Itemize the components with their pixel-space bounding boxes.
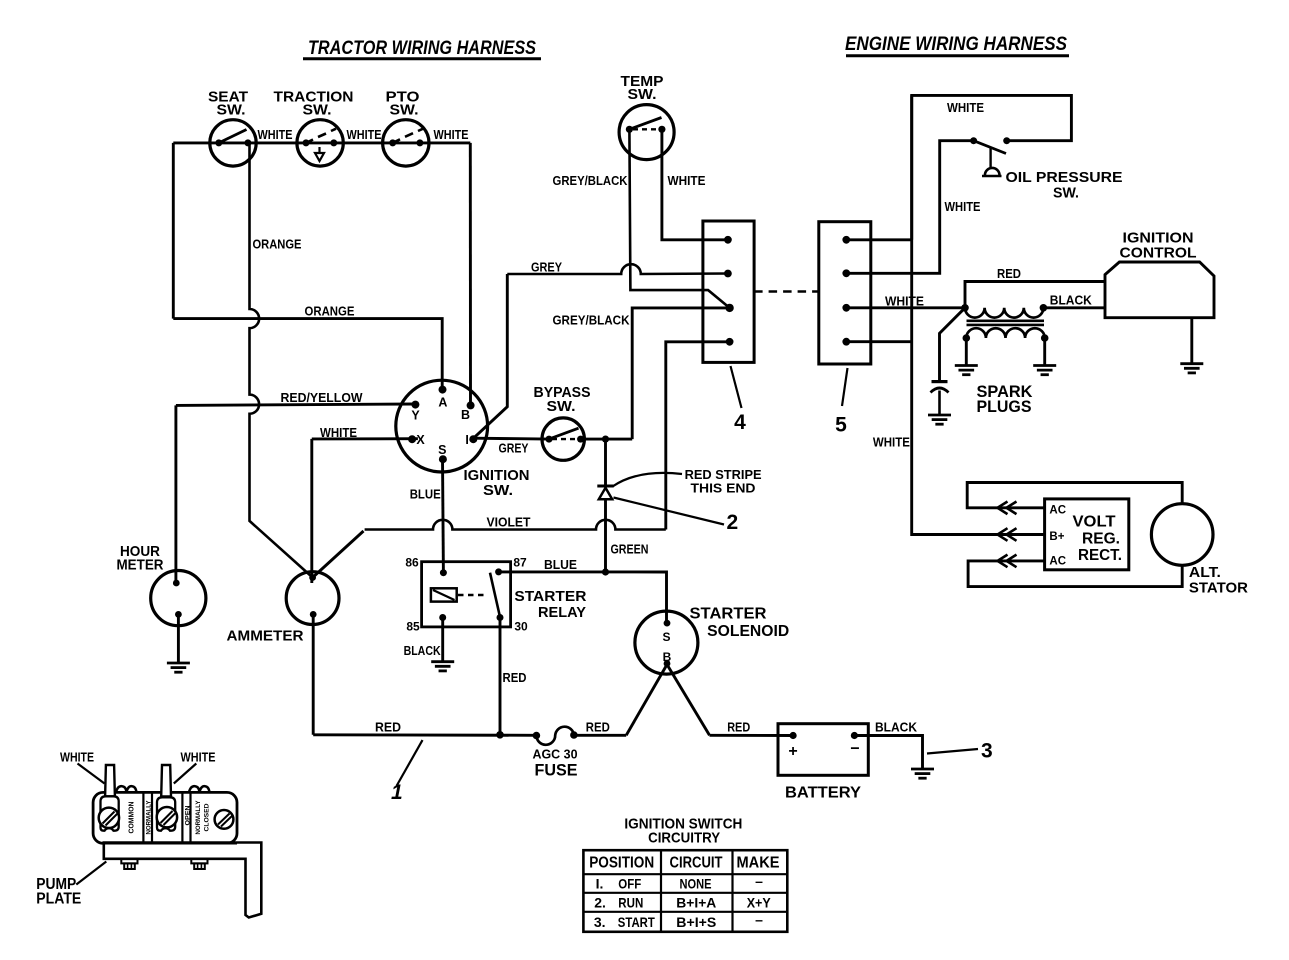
svg-text:ORANGE: ORANGE (253, 238, 302, 252)
solenoid STARTER SOLENOID (635, 606, 789, 675)
svg-text:AC: AC (1049, 556, 1066, 568)
label COMMON (127, 802, 136, 834)
svg-text:BLACK: BLACK (404, 644, 441, 658)
arrow AC top (998, 502, 1017, 515)
wire orange vertical from seat sw (with hops) (250, 143, 313, 578)
diode (red stripe this end) (597, 486, 613, 572)
arrow B+ (998, 528, 1017, 541)
svg-text:NONE: NONE (680, 876, 712, 892)
connector 4 pin2 (724, 270, 732, 278)
svg-text:30: 30 (514, 620, 528, 634)
svg-text:WHITE: WHITE (947, 101, 984, 115)
relay terminal 86 (405, 555, 447, 576)
connector 5 pin3 (842, 304, 850, 312)
svg-text:WHITE: WHITE (181, 750, 216, 764)
svg-text:87: 87 (513, 555, 527, 569)
module IGNITION CONTROL (1105, 230, 1214, 318)
svg-text:NORMALLY: NORMALLY (195, 800, 202, 834)
svg-text:POSITION: POSITION (589, 855, 654, 872)
pump plate redraw block bottom (104, 842, 237, 844)
ground ignition control (1180, 364, 1203, 373)
svg-text:RED: RED (586, 721, 610, 735)
wire GREY horizontal (hop over grey/black) (507, 264, 728, 274)
svg-text:BLACK: BLACK (875, 721, 917, 735)
coil secondary winding (963, 328, 1049, 342)
label GREY (bypass) (499, 442, 530, 456)
pump block top bumps left (116, 786, 137, 792)
relay actuator dashes (458, 594, 488, 596)
relay terminal 30 (497, 614, 528, 634)
label NORMALLY (open) (145, 800, 152, 834)
svg-text:VOLT: VOLT (1073, 514, 1117, 531)
title TRACTOR WIRING HARNESS (303, 37, 541, 59)
pump plate (104, 843, 261, 918)
svg-text:B: B (663, 650, 672, 664)
arrow AC bottom (998, 555, 1017, 568)
label VOLT REG. RECT. (1073, 514, 1123, 565)
svg-text:TRACTOR WIRING HARNESS: TRACTOR WIRING HARNESS (308, 37, 536, 59)
label BLACK (battery) (875, 721, 917, 735)
svg-text:STARTER: STARTER (514, 588, 586, 605)
wire AC top loop (967, 483, 1182, 508)
svg-text:SW.: SW. (628, 86, 657, 103)
svg-text:PLUGS: PLUGS (977, 398, 1032, 416)
svg-text:4: 4 (734, 411, 746, 434)
wire BLACK battery to ground (854, 736, 922, 770)
svg-text:PLATE: PLATE (36, 891, 81, 908)
label WHITE (coil) (885, 295, 924, 309)
label IGNITION SW. (464, 467, 530, 499)
ground spark plug right (1033, 366, 1056, 375)
svg-text:WHITE: WHITE (668, 174, 706, 188)
svg-text:CIRCUIT: CIRCUIT (670, 855, 723, 872)
svg-text:RED STRIPE: RED STRIPE (685, 468, 762, 482)
label B+ (1049, 531, 1064, 543)
svg-text:OPEN: OPEN (184, 805, 191, 825)
svg-text:86: 86 (405, 555, 419, 569)
label VIOLET (487, 516, 531, 530)
svg-text:GREEN: GREEN (611, 543, 649, 557)
relay blade (490, 573, 500, 616)
label WHITE (oil top) (947, 101, 984, 115)
svg-text:GREY: GREY (531, 261, 563, 275)
label WHITE (to volt reg) (873, 436, 910, 450)
svg-text:CLOSED: CLOSED (203, 803, 210, 831)
svg-text:SW.: SW. (303, 102, 332, 119)
svg-text:SW.: SW. (390, 102, 419, 119)
wire RED coil to ignition control (965, 282, 1105, 308)
label GREY (to connector) (531, 261, 563, 275)
label WHITE (pto-right) (434, 128, 469, 142)
svg-text:B+I+S: B+I+S (676, 914, 716, 930)
svg-text:AC: AC (1049, 505, 1066, 517)
wire hour meter drop (174, 405, 177, 583)
table header (589, 855, 779, 872)
wire oil pressure loop (912, 95, 1072, 239)
connector 5 pin1 (842, 236, 850, 244)
wire ignition control ground lead (1190, 318, 1193, 364)
label WHITE (traction-pto) (347, 128, 382, 142)
wire B drop from white rail (469, 143, 472, 405)
wire BLUE S to relay 86 (441, 458, 445, 573)
callout 3 (927, 740, 993, 763)
pump screw left (COMMON) (99, 808, 119, 828)
label OPEN (184, 805, 191, 825)
label BLUE (87) (544, 558, 577, 572)
svg-text:85: 85 (406, 620, 420, 634)
label AC bottom (1049, 556, 1066, 568)
svg-text:START: START (618, 914, 655, 930)
meter HOUR METER (117, 543, 206, 663)
svg-text:METER: METER (117, 557, 164, 574)
switch TEMP SW. (619, 73, 674, 160)
node diode tap (602, 436, 609, 443)
wire RED rail left (313, 733, 536, 736)
pump spade terminal right (161, 765, 171, 797)
pump block divider 4 (189, 792, 191, 843)
battery BATTERY (778, 724, 868, 802)
wire oil-left to connector5 pin2 (846, 141, 973, 274)
capacitor (931, 382, 949, 415)
label RED/YELLOW (281, 391, 363, 405)
wire temp-right WHITE to connector4 pin1 (662, 129, 728, 240)
wire VIOLET diagonal into ammeter (313, 531, 364, 578)
svg-text:RED: RED (375, 721, 401, 735)
pump terminal lug middle (157, 797, 175, 830)
pump terminal lug left (101, 796, 119, 830)
wire RED/YELLOW to ignition Y (176, 404, 416, 405)
svg-text:RECT.: RECT. (1078, 547, 1122, 564)
label PUMP PLATE (36, 862, 106, 908)
svg-text:BLACK: BLACK (1050, 294, 1092, 308)
pump terminal block body (93, 792, 237, 843)
terminal A (438, 386, 447, 410)
svg-text:A: A (438, 396, 447, 410)
svg-text:MAKE: MAKE (737, 855, 780, 872)
svg-text:RUN: RUN (618, 895, 643, 911)
wire secondary left to ground (965, 338, 968, 366)
pump screw middle (157, 807, 177, 827)
callout 5 (835, 368, 847, 437)
svg-text:SW.: SW. (483, 482, 513, 499)
wire connector5 pin4 branch (846, 340, 911, 343)
wire I to bypass (474, 437, 550, 441)
svg-text:VIOLET: VIOLET (487, 516, 531, 530)
switch SEAT SW. (208, 89, 256, 167)
ground spark plug left (955, 366, 978, 375)
table row 3 (594, 912, 763, 930)
svg-text:SW.: SW. (547, 398, 576, 415)
wire GREY/BLACK pin3 to bypass corner (632, 308, 729, 439)
node coil primary left (961, 304, 969, 312)
svg-text:RELAY: RELAY (538, 604, 586, 621)
meter AMMETER (227, 572, 340, 735)
svg-text:WHITE: WHITE (320, 426, 357, 440)
wire diode upper lead (604, 439, 607, 484)
svg-text:5: 5 (835, 414, 847, 437)
label GREY/BLACK (upper) (553, 174, 628, 188)
label WHITE (oil drop) (945, 200, 981, 214)
label RED (battery) (727, 721, 750, 735)
wire solenoid B right leg (667, 665, 710, 736)
relay coil (431, 588, 457, 601)
connector 4 body (703, 221, 754, 362)
svg-text:THIS END: THIS END (691, 482, 756, 496)
table row 1 (596, 873, 764, 892)
svg-text:ALT.: ALT. (1189, 564, 1221, 581)
label WHITE (seat-traction) (258, 128, 293, 142)
wire GREY riser (474, 274, 508, 438)
label WHITE (pump right) (174, 750, 216, 783)
label ORANGE (vertical) (253, 238, 302, 252)
wire relay 85 to ground (441, 618, 444, 662)
relay terminal 87 (495, 555, 527, 575)
svg-text:WHITE: WHITE (347, 128, 382, 142)
svg-text:WHITE: WHITE (885, 295, 924, 309)
wire capacitor lead (940, 308, 966, 380)
svg-text:CONTROL: CONTROL (1120, 245, 1197, 262)
wire AC bottom loop (968, 561, 1182, 587)
svg-text:–: – (755, 912, 763, 928)
svg-text:B+I+A: B+I+A (676, 895, 716, 911)
wire bypass to grey/black corner (581, 438, 633, 441)
svg-text:WHITE: WHITE (434, 128, 469, 142)
svg-text:WHITE: WHITE (873, 436, 910, 450)
label RED (fuse) (586, 721, 610, 735)
label GREEN (611, 543, 649, 557)
svg-text:S: S (662, 630, 670, 644)
ground battery (911, 769, 934, 778)
label STARTER RELAY (514, 588, 586, 621)
svg-text:WHITE: WHITE (258, 128, 293, 142)
relay STARTER RELAY body (422, 562, 511, 627)
switch IGNITION SW. body (396, 380, 488, 472)
wire VIOLET riser to connector4 pin4 (666, 342, 730, 530)
wire solenoid B left leg (626, 665, 667, 736)
label GREY/BLACK (lower) (553, 314, 630, 328)
svg-text:+: + (788, 743, 797, 760)
svg-text:Y: Y (411, 409, 420, 423)
pump bolt left (121, 859, 137, 869)
generator ALT. STATOR (1151, 504, 1248, 597)
callout 4 (731, 366, 747, 434)
module VOLT REG. RECT. body (1045, 499, 1129, 570)
svg-text:AMMETER: AMMETER (227, 628, 304, 645)
coil primary winding (965, 308, 1043, 318)
callout RED STRIPE THIS END (613, 468, 762, 496)
wire relay 30 RED drop (499, 618, 502, 735)
svg-text:WHITE: WHITE (60, 750, 94, 764)
label RED (coil) (997, 267, 1021, 281)
node relay30 junction (496, 731, 504, 739)
connector 5 pin4 (842, 338, 850, 346)
wire WHITE vertical to B+ (912, 95, 1045, 534)
fuse AGC 30 (533, 727, 578, 780)
pump block top bumps right (189, 786, 210, 792)
svg-text:3.: 3. (594, 914, 606, 930)
ground relay 85 (431, 662, 454, 671)
terminal S (438, 443, 447, 463)
callout 2 (614, 498, 739, 535)
pump screw right (215, 810, 234, 829)
callout 1 (391, 740, 423, 804)
connector 4 pin4 (726, 338, 734, 346)
label ORANGE (horizontal) (305, 305, 355, 319)
switch OIL PRESSURE SW. (970, 137, 1122, 201)
connector 4 pin3 (725, 304, 733, 312)
wire ammeter riser (310, 439, 313, 583)
wire WHITE seat/traction/pto rail (173, 141, 470, 144)
svg-text:X+Y: X+Y (747, 895, 772, 911)
svg-text:B+: B+ (1049, 531, 1064, 543)
ground capacitor (928, 415, 951, 424)
svg-text:I.: I. (596, 876, 604, 892)
label RED (relay) (503, 671, 527, 685)
svg-text:FUSE: FUSE (535, 762, 578, 780)
svg-text:2.: 2. (594, 895, 606, 911)
pump block divider 2 (151, 792, 153, 843)
pump spade terminal left (105, 765, 115, 797)
svg-text:ENGINE WIRING HARNESS: ENGINE WIRING HARNESS (845, 33, 1067, 55)
svg-text:RED: RED (727, 721, 750, 735)
wire connector5 pin3 to coil (846, 306, 965, 309)
coil core (967, 321, 1045, 325)
wire solenoid leg to battery (710, 734, 794, 737)
label SPARK PLUGS (977, 383, 1033, 416)
dashed link connector4-connector5 (754, 290, 819, 293)
wire WHITE to ignition X (312, 437, 418, 440)
svg-text:ORANGE: ORANGE (305, 305, 355, 319)
wire BLACK coil to ignition control (1043, 306, 1105, 309)
title ENGINE WIRING HARNESS (845, 33, 1069, 56)
svg-text:STARTER: STARTER (690, 606, 767, 623)
svg-text:SW.: SW. (217, 102, 246, 119)
terminal Y (411, 401, 420, 423)
svg-text:REG.: REG. (1082, 530, 1120, 547)
pump bolt right (191, 859, 207, 869)
svg-text:S: S (438, 443, 446, 457)
node coil primary right (1040, 304, 1048, 312)
svg-text:GREY/BLACK: GREY/BLACK (553, 314, 630, 328)
label WHITE (pump left) (60, 750, 105, 783)
wire ORANGE horizontal to ignition A (173, 319, 442, 391)
label RED (rail left) (375, 721, 401, 735)
label BLACK (relay) (404, 644, 441, 658)
label BLACK (coil) (1050, 294, 1092, 308)
svg-text:NORMALLY: NORMALLY (145, 800, 152, 834)
connector 4 pin1 (724, 236, 732, 244)
terminal B (461, 401, 475, 421)
svg-text:CIRCUITRY: CIRCUITRY (648, 829, 720, 846)
connector 5 pin2 (842, 269, 850, 277)
svg-text:B: B (461, 408, 470, 422)
svg-text:SOLENOID: SOLENOID (707, 623, 789, 640)
label AC top (1049, 505, 1066, 517)
pump block divider 1 (142, 792, 144, 843)
label NORMALLY CLOSED (195, 800, 210, 834)
svg-text:WHITE: WHITE (945, 200, 981, 214)
label BLUE (S) (410, 487, 441, 501)
terminal X (408, 433, 425, 447)
svg-text:SW.: SW. (1053, 184, 1079, 201)
svg-text:GREY: GREY (499, 442, 530, 456)
svg-text:BATTERY: BATTERY (785, 785, 862, 802)
wire secondary right to ground (1043, 338, 1046, 366)
svg-text:2: 2 (727, 511, 739, 534)
connector 5 body (819, 222, 871, 364)
svg-text:COMMON: COMMON (127, 802, 136, 834)
switch TRACTION SW. (274, 89, 354, 167)
svg-text:RED/YELLOW: RED/YELLOW (281, 391, 363, 405)
wire left vertical to ORANGE (172, 143, 175, 319)
svg-text:3: 3 (981, 740, 993, 763)
svg-text:STATOR: STATOR (1189, 580, 1248, 597)
relay terminal 85 (406, 614, 446, 634)
svg-text:X: X (416, 433, 425, 447)
node green/blue junction (602, 568, 609, 575)
wire GREY/BLACK temp-left drop (629, 129, 729, 308)
wire fuse to solenoid leg (574, 734, 626, 737)
svg-text:AGC 30: AGC 30 (533, 748, 578, 762)
svg-text:–: – (755, 873, 763, 889)
table IGNITION SWITCH CIRCUITRY (583, 850, 787, 932)
ground hour meter (167, 663, 190, 672)
svg-text:GREY/BLACK: GREY/BLACK (553, 174, 628, 188)
switch BYPASS SW. (534, 384, 591, 460)
wire VIOLET (hops over blue+green) (365, 520, 666, 530)
svg-text:RED: RED (503, 671, 527, 685)
svg-text:I: I (465, 433, 468, 447)
table row 2 (594, 895, 771, 911)
svg-text:1: 1 (391, 781, 403, 804)
svg-text:RED: RED (997, 267, 1021, 281)
svg-text:−: − (850, 741, 859, 758)
label WHITE (temp) (668, 174, 706, 188)
terminal I (465, 433, 477, 447)
svg-text:BLUE: BLUE (410, 487, 441, 501)
table title (624, 815, 742, 846)
pump block divider 3 (181, 792, 183, 843)
switch PTO SW. (383, 89, 429, 167)
wire BLUE 87 to solenoid S (499, 572, 667, 623)
svg-text:BLUE: BLUE (544, 558, 577, 572)
wire connector5 pin1 branch (846, 238, 911, 241)
svg-text:OFF: OFF (618, 876, 641, 892)
label WHITE (ammeter-X) (320, 426, 357, 440)
